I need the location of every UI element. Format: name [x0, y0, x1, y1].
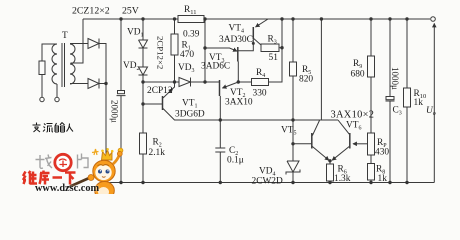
svg-text:3AX10×2: 3AX10×2: [331, 110, 375, 121]
svg-text:VD1: VD1: [127, 28, 144, 39]
svg-text:3AD30C: 3AD30C: [219, 35, 253, 45]
svg-text:VT5: VT5: [281, 126, 297, 137]
svg-text:25V: 25V: [122, 6, 139, 17]
svg-text:2.1k: 2.1k: [149, 148, 166, 158]
svg-text:VD3: VD3: [178, 63, 195, 74]
svg-text:430: 430: [375, 148, 389, 158]
svg-text:R4: R4: [256, 68, 265, 79]
svg-text:330: 330: [253, 89, 267, 99]
svg-text:VT4: VT4: [229, 24, 245, 35]
svg-text:VT6: VT6: [346, 121, 362, 132]
svg-text:C3: C3: [393, 106, 402, 117]
svg-text:3AD6C: 3AD6C: [201, 62, 230, 72]
svg-text:T: T: [62, 31, 68, 41]
svg-text:VD2: VD2: [123, 61, 140, 72]
svg-text:2CZ12×2: 2CZ12×2: [72, 6, 110, 17]
svg-text:2CP12×2: 2CP12×2: [156, 36, 166, 69]
svg-text:680: 680: [351, 70, 365, 80]
svg-text:2000μ: 2000μ: [110, 100, 120, 123]
svg-text:820: 820: [299, 75, 313, 85]
svg-text:1.3k: 1.3k: [334, 174, 351, 184]
svg-text:2CP12: 2CP12: [147, 86, 173, 96]
svg-text:0.1μ: 0.1μ: [227, 156, 244, 166]
svg-text:R3: R3: [268, 35, 277, 46]
svg-text:R2: R2: [153, 138, 162, 149]
svg-text:51: 51: [269, 53, 279, 63]
svg-text:470: 470: [180, 50, 194, 60]
svg-text:3DG6D: 3DG6D: [175, 110, 205, 120]
svg-text:3AX10: 3AX10: [225, 98, 253, 108]
svg-text:1000μ: 1000μ: [390, 67, 400, 90]
svg-text:R11: R11: [184, 5, 197, 16]
svg-text:R9: R9: [353, 59, 362, 70]
svg-text:1k: 1k: [378, 174, 388, 184]
svg-text:2CW2D: 2CW2D: [252, 177, 283, 187]
svg-text:VT1: VT1: [182, 99, 198, 110]
svg-text:www.dzsc.com: www.dzsc.com: [35, 183, 99, 194]
svg-text:1k: 1k: [414, 98, 424, 108]
svg-text:0.39: 0.39: [183, 30, 200, 40]
